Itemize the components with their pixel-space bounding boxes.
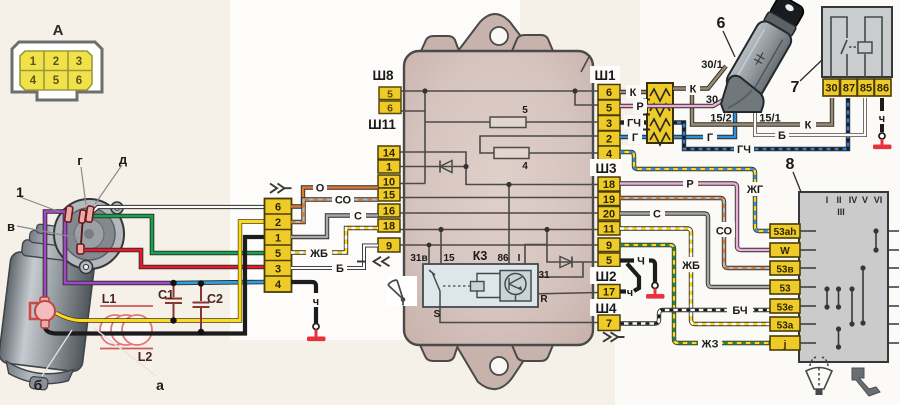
inductor L2 line xyxy=(100,348,153,350)
brush lower terminal xyxy=(77,244,84,254)
ignition switch base elbow xyxy=(721,76,764,112)
switch 8 contact column VI xyxy=(875,231,877,250)
fuse box zigzags xyxy=(650,89,670,145)
svg-text:S: S xyxy=(434,309,441,320)
chevron arrow at motor connector xyxy=(270,184,292,193)
wire relay31v vertical xyxy=(428,245,430,270)
wire BCh (Sh4:7 to switch 53e) xyxy=(620,310,770,324)
brush holder right xyxy=(85,206,94,223)
svg-text:30/1: 30/1 xyxy=(701,59,722,71)
svg-text:16: 16 xyxy=(383,206,395,218)
wire Sh11:15 to Sh3:19 xyxy=(400,197,598,199)
svg-text:ЖБ: ЖБ xyxy=(681,260,700,272)
wire relayS to Sh4:7 xyxy=(440,292,598,323)
svg-text:6: 6 xyxy=(387,103,393,115)
wire diode D2 branch to Sh3:5 xyxy=(547,245,598,263)
ground node circle (relay7) xyxy=(879,133,885,139)
svg-text:Ч: Ч xyxy=(637,256,645,268)
wire Ch black (Sh3:5 to ground) xyxy=(620,261,655,283)
wiper icon (left of block) xyxy=(388,280,403,306)
wire orange O (pin6 to Sh11:10) xyxy=(291,188,378,207)
wire branch to Sh11:10 xyxy=(400,183,425,185)
svg-text:3: 3 xyxy=(275,264,281,276)
svg-text:30: 30 xyxy=(825,83,837,95)
labels: relay K3 area xyxy=(410,105,550,320)
wire R pink (Sh3:18 to switch W) xyxy=(620,184,770,251)
wiper motor cap ridges xyxy=(21,239,86,263)
svg-text:Б: Б xyxy=(778,130,786,142)
svg-text:Ш11: Ш11 xyxy=(368,117,396,132)
switch 8 box xyxy=(799,192,888,362)
svg-text:15: 15 xyxy=(443,253,455,264)
wire S gray (pin1 to Sh11:16) xyxy=(291,216,378,238)
wire B white (ignition 15/1 to relay 85) xyxy=(755,98,865,135)
svg-text:j: j xyxy=(783,340,787,351)
svg-text:II: II xyxy=(836,195,841,205)
wire branch to Sh8:6 xyxy=(401,91,425,111)
svg-text:W: W xyxy=(780,246,790,257)
relay 7 box xyxy=(822,7,892,77)
svg-text:6: 6 xyxy=(275,202,281,214)
svg-text:7: 7 xyxy=(606,318,612,330)
wiper motor gear housing mid ring xyxy=(63,208,115,260)
wire black (motor to pin 1) xyxy=(45,237,265,334)
svg-text:53в: 53в xyxy=(776,265,793,276)
relay K3 dashed link xyxy=(443,285,470,287)
wire relay86 vertical xyxy=(508,185,510,273)
mounting block bottom mount triangle xyxy=(456,345,534,389)
leader line item 6 xyxy=(723,31,735,57)
wire K (Sh1:6 to fusebox) xyxy=(620,90,647,94)
wire yellow (thermofuse to pin 2) xyxy=(56,222,265,321)
mounting block corner slash xyxy=(581,55,590,72)
svg-text:Ш4: Ш4 xyxy=(595,301,617,316)
wire GCh (Sh1:3 to fusebox) xyxy=(620,120,647,124)
ground symbol (motor) red xyxy=(315,330,318,338)
mounting block bottom hole xyxy=(490,357,508,375)
relay K3 transistor circle xyxy=(505,274,526,295)
diode D2 xyxy=(560,257,572,268)
relay K3 contact xyxy=(429,270,440,307)
relay K3 coil leads xyxy=(477,274,500,298)
svg-text:С: С xyxy=(653,209,661,221)
svg-text:Ш3: Ш3 xyxy=(595,161,617,176)
wire purple (motor armature to C1 node) xyxy=(45,212,174,304)
svg-text:ЖГ: ЖГ xyxy=(746,184,764,196)
mounting block bottom-left bump xyxy=(420,345,458,361)
ground symbol (Sh2 area) red xyxy=(654,289,657,295)
switch 8 contact column I xyxy=(826,289,828,307)
wire Sh11:9 to Sh3:9 xyxy=(400,244,598,246)
connector A cell block xyxy=(20,51,92,90)
svg-text:31: 31 xyxy=(538,270,550,281)
svg-text:I: I xyxy=(518,253,521,264)
connector Sh8 label xyxy=(368,66,398,83)
capacitor C2 xyxy=(193,284,210,331)
switch 8 contact column V xyxy=(862,268,864,323)
svg-text:Б: Б xyxy=(336,263,344,275)
svg-text:18: 18 xyxy=(603,179,615,191)
wire diode D1 line from Sh11:1 xyxy=(400,166,466,168)
wire ZhB (Sh3:11 to switch 53a) xyxy=(620,229,770,325)
squeegee icon below switch xyxy=(852,368,880,396)
wiper motor ear lower xyxy=(80,261,93,274)
switch 8 contact column II xyxy=(838,289,840,307)
connector Sh11 pins xyxy=(378,146,400,252)
svg-text:4: 4 xyxy=(522,161,528,172)
relay 7 coil xyxy=(858,42,872,53)
fuse box xyxy=(647,83,673,143)
leader line b xyxy=(42,330,72,376)
ground node circle (Sh2 area) xyxy=(652,283,658,289)
relay K3 coil xyxy=(471,282,485,292)
brush holder left xyxy=(64,206,73,223)
wire SO (Sh3:19 to switch 53v) xyxy=(620,198,770,268)
inductor L1 line xyxy=(100,305,153,307)
svg-text:4: 4 xyxy=(275,279,282,291)
wire R pink (Sh1:5 to ignition 30) xyxy=(620,99,725,106)
svg-text:6: 6 xyxy=(76,75,82,87)
relay K3 transistor symbol xyxy=(509,277,522,301)
svg-text:3: 3 xyxy=(76,56,82,68)
svg-text:L1: L1 xyxy=(102,292,117,306)
connector Sh8 pins xyxy=(379,87,401,114)
wire Sh11:18 to Sh3:11 xyxy=(400,229,598,231)
svg-text:К3: К3 xyxy=(473,249,488,263)
svg-text:III: III xyxy=(837,207,845,217)
switch 8 header row xyxy=(826,195,883,217)
svg-text:1: 1 xyxy=(275,233,281,245)
fuse 5 xyxy=(490,117,526,128)
wire ch hook (Sh2:17) xyxy=(620,289,626,293)
svg-text:3: 3 xyxy=(606,118,612,130)
svg-text:5: 5 xyxy=(387,89,393,101)
svg-text:б: б xyxy=(34,377,43,393)
svg-text:19: 19 xyxy=(603,194,615,206)
wiper icon box (left of block) xyxy=(387,276,417,306)
wire B white (pin3 to Sh11:9) xyxy=(291,246,378,269)
background white patch right xyxy=(615,145,900,405)
labels: component letters left xyxy=(7,152,164,393)
svg-text:V: V xyxy=(862,195,868,205)
svg-text:Р: Р xyxy=(636,101,643,113)
labels: L1 L2 C1 C2 xyxy=(102,288,223,364)
svg-text:IV: IV xyxy=(849,195,858,205)
svg-text:2: 2 xyxy=(275,217,281,229)
wire ZhZ (Sh3:9 to switch j) xyxy=(620,245,770,343)
svg-text:ГЧ: ГЧ xyxy=(737,144,751,156)
svg-text:86: 86 xyxy=(877,83,889,95)
svg-text:Ш8: Ш8 xyxy=(372,68,394,83)
svg-text:R: R xyxy=(540,294,548,305)
svg-text:ГЧ: ГЧ xyxy=(627,118,641,130)
svg-text:15/1: 15/1 xyxy=(759,113,780,125)
svg-text:ЖБ: ЖБ xyxy=(309,248,328,260)
wire Sh8:5 to Sh1:6 xyxy=(401,90,598,92)
svg-text:53e: 53e xyxy=(777,303,794,314)
svg-text:53a: 53a xyxy=(777,321,794,332)
fuse 4 xyxy=(494,148,529,159)
wire white (motor to pin 6) xyxy=(91,207,265,214)
svg-text:I: I xyxy=(826,195,829,205)
chevron arrow below Sh4:7 xyxy=(603,332,625,341)
svg-text:ч: ч xyxy=(313,296,319,308)
connector Sh1 label xyxy=(590,66,620,83)
background white patch center xyxy=(230,0,520,340)
connector Sh4 label xyxy=(590,299,622,316)
svg-text:85: 85 xyxy=(860,83,872,95)
chevron arrow left of Sh11:9 xyxy=(357,257,390,266)
switch 8 terminal stubs right xyxy=(888,231,899,343)
mounting block top hole xyxy=(490,27,508,45)
svg-text:Г: Г xyxy=(707,132,714,144)
svg-text:10: 10 xyxy=(383,177,395,189)
labels: wire names left area xyxy=(309,183,362,309)
switch 8 terminal stubs left xyxy=(800,231,816,343)
svg-text:ч: ч xyxy=(627,287,633,299)
svg-text:СО: СО xyxy=(335,195,352,207)
svg-text:г: г xyxy=(77,153,83,168)
svg-text:L2: L2 xyxy=(138,350,153,364)
leader line d xyxy=(95,165,122,204)
junction dots inside block xyxy=(422,88,427,93)
svg-text:8: 8 xyxy=(786,156,795,173)
motor connector pins xyxy=(265,214,292,276)
svg-text:а: а xyxy=(156,377,164,393)
svg-text:30: 30 xyxy=(706,94,718,106)
svg-text:Р: Р xyxy=(686,179,693,191)
wire Sh11:16 to Sh3:20 xyxy=(400,212,598,214)
svg-text:6: 6 xyxy=(606,87,612,99)
svg-text:9: 9 xyxy=(386,241,392,253)
svg-text:в: в xyxy=(7,219,15,234)
svg-text:2: 2 xyxy=(53,56,59,68)
svg-text:Ш2: Ш2 xyxy=(595,269,616,284)
leader line item 8 xyxy=(793,172,801,192)
svg-text:20: 20 xyxy=(603,209,615,221)
connector Sh11 label xyxy=(364,115,400,132)
ground symbol (relay7) red xyxy=(881,139,884,145)
wire relayI branch xyxy=(525,230,547,273)
wire SO (pin2 to Sh11:15) xyxy=(291,200,378,223)
svg-text:5: 5 xyxy=(53,75,60,87)
svg-text:С: С xyxy=(354,211,362,223)
fuse box side ticks xyxy=(643,100,650,130)
svg-text:1: 1 xyxy=(386,162,392,174)
svg-text:11: 11 xyxy=(603,224,615,236)
relay 7 internals xyxy=(831,17,882,77)
svg-text:СО: СО xyxy=(716,226,733,238)
switch 8 terminal cells xyxy=(770,224,800,350)
junction node C1 bottom xyxy=(170,317,176,323)
relay 7 terminals xyxy=(823,79,891,96)
wire S gray (Sh3:20 to switch 53) xyxy=(620,214,770,288)
washer-wiper icon below switch xyxy=(806,357,832,389)
wire Ch (relay 86 to ground) xyxy=(880,98,884,111)
motor connector body xyxy=(265,199,292,293)
brush holder mid xyxy=(79,210,87,224)
connector Sh2 label xyxy=(590,267,622,284)
mounting block bottom-right bump xyxy=(512,345,553,361)
svg-text:18: 18 xyxy=(383,221,395,233)
svg-text:4: 4 xyxy=(606,149,613,161)
wire ZhG (Sh1:4 to switch 53ah) xyxy=(620,152,770,231)
wire fuse5 line xyxy=(425,121,598,123)
svg-text:К: К xyxy=(690,84,697,96)
svg-text:К: К xyxy=(805,120,812,132)
junction node C2 bottom xyxy=(198,329,204,335)
relay K3 transistor box xyxy=(500,271,531,302)
ignition switch body xyxy=(724,9,800,102)
svg-text:Ш1: Ш1 xyxy=(594,68,616,83)
connector Sh3 pins xyxy=(598,177,620,267)
svg-text:C2: C2 xyxy=(207,292,223,306)
connector Sh4 pin 7 xyxy=(598,315,620,331)
ground node circle (motor) xyxy=(313,324,319,330)
svg-text:5: 5 xyxy=(275,248,281,260)
svg-text:C1: C1 xyxy=(158,288,174,302)
inductor coil loops xyxy=(100,315,130,345)
svg-text:VI: VI xyxy=(874,195,883,205)
svg-text:ЖЗ: ЖЗ xyxy=(701,339,719,351)
svg-text:Г: Г xyxy=(632,132,639,144)
svg-text:7: 7 xyxy=(791,79,800,96)
svg-text:4: 4 xyxy=(30,75,37,87)
leader line a xyxy=(94,328,156,376)
connector Sh2 pin 17 xyxy=(598,285,620,299)
wiper motor gear housing inner xyxy=(74,219,104,249)
wire blue (C1 node to pin 4) xyxy=(174,282,265,283)
wiper motor shaft stub xyxy=(29,376,48,390)
svg-text:5: 5 xyxy=(606,255,612,267)
thermofuse body xyxy=(35,301,55,321)
svg-text:53: 53 xyxy=(779,284,791,295)
leader line item 7 xyxy=(800,60,822,81)
connector Sh3 label xyxy=(590,159,622,176)
wire G blue (Sh1:2 via fusebox to ignition 15/2) xyxy=(620,113,735,137)
wire green (motor to pin 5) xyxy=(92,216,265,253)
wiper motor bottom cap xyxy=(4,361,74,387)
switch 8 contact column IV xyxy=(851,289,853,324)
thermofuse tab bottom xyxy=(41,320,49,328)
wire diode junction down to Sh3:18 xyxy=(466,167,598,185)
thermofuse bracket xyxy=(30,303,38,319)
svg-text:14: 14 xyxy=(383,148,396,160)
mounting block top-left bump xyxy=(421,36,459,51)
relay K3 box xyxy=(423,264,538,307)
leader line v xyxy=(17,226,78,238)
svg-text:86: 86 xyxy=(497,253,509,264)
leader line g xyxy=(81,167,86,205)
svg-text:87: 87 xyxy=(843,83,855,95)
wire red (motor to pin 3) xyxy=(85,250,265,267)
wire fuse4 line xyxy=(480,136,598,153)
svg-text:5: 5 xyxy=(522,105,528,116)
svg-text:К: К xyxy=(630,87,637,99)
wire relay15 vertical xyxy=(440,230,442,282)
svg-text:5: 5 xyxy=(606,103,612,115)
wiper motor gear housing outer xyxy=(54,199,124,269)
wire K (fusebox to ignition 30/1 and relay 30) xyxy=(673,66,726,89)
mounting block top mount triangle xyxy=(458,14,532,51)
svg-text:ч: ч xyxy=(879,113,885,125)
svg-text:1: 1 xyxy=(30,56,37,68)
svg-text:д: д xyxy=(119,152,128,167)
svg-text:31в: 31в xyxy=(410,253,427,264)
wire Sh11:14 branch xyxy=(400,152,466,167)
svg-text:53ah: 53ah xyxy=(774,227,797,238)
svg-text:О: О xyxy=(316,183,325,195)
svg-text:15/2: 15/2 xyxy=(710,113,731,125)
svg-text:1: 1 xyxy=(16,184,24,200)
connector Sh1 pins xyxy=(598,85,620,162)
wire ZhB (pin5 to Sh11:18) xyxy=(291,228,378,253)
wire black Ch (pin4 to ground) xyxy=(291,282,316,293)
brush lead wire xyxy=(81,223,83,244)
svg-text:А: А xyxy=(53,22,64,39)
connector A body xyxy=(12,42,102,100)
mounting block body xyxy=(404,51,593,345)
wire branch to Sh1:5 xyxy=(575,91,598,105)
svg-text:6: 6 xyxy=(717,15,726,32)
wire GCh (fusebox to relay 87) xyxy=(673,98,848,149)
wiper motor ear upper xyxy=(111,202,123,214)
labels: item numbers xyxy=(717,15,800,173)
svg-text:2: 2 xyxy=(606,134,612,146)
mounting block top-right bump xyxy=(512,35,553,51)
thermofuse tab top xyxy=(40,297,49,303)
wire relayR to Sh2:17 xyxy=(531,293,598,295)
leader line 1 xyxy=(20,197,60,212)
ignition switch key xyxy=(768,0,806,30)
junction node C2 top xyxy=(198,280,204,286)
svg-text:9: 9 xyxy=(606,240,612,252)
wire relay31 to Sh3:5 xyxy=(531,262,583,277)
svg-text:17: 17 xyxy=(603,287,615,299)
capacitor C1 xyxy=(165,283,182,321)
connector A cell grid xyxy=(20,51,92,90)
junction node C1 top xyxy=(170,280,176,286)
svg-text:БЧ: БЧ xyxy=(732,305,747,317)
labels: wire names right area xyxy=(627,59,885,351)
wiper motor body cylinder xyxy=(0,221,99,394)
wire vertical bus x425 xyxy=(424,111,426,184)
diode D1 xyxy=(440,161,452,173)
svg-text:15: 15 xyxy=(383,190,395,202)
